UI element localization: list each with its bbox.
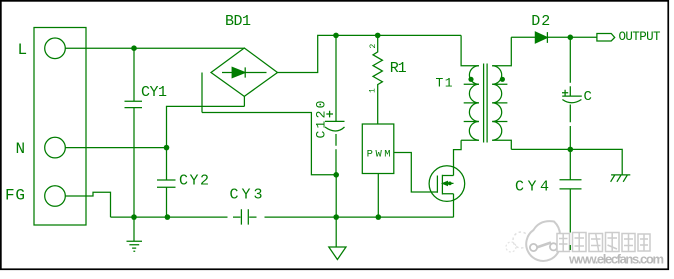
wire PWM to gate (394, 153, 438, 193)
connector J1 terminal block (34, 28, 86, 226)
wire D2 to output (570, 36, 597, 38)
wire FG to bottom rail (65, 192, 110, 217)
svg-text:T1: T1 (436, 76, 453, 91)
svg-text:BD1: BD1 (225, 13, 251, 30)
capacitor CY4 (560, 149, 582, 232)
transformer T1 primary winding (461, 35, 479, 140)
capacitor CY3 (241, 209, 248, 224)
output connector tag (597, 34, 615, 42)
wire N junction up to bridge AC2 (167, 73, 337, 175)
svg-text:OUTPUT: OUTPUT (619, 30, 661, 44)
svg-text:CY4: CY4 (515, 179, 549, 196)
svg-text:C: C (584, 89, 592, 105)
svg-text:www.elecfans.com: www.elecfans.com (568, 252, 664, 267)
wire bridge minus vertical (243, 96, 245, 106)
capacitor CY1 (125, 101, 143, 107)
resistor R1 (373, 35, 382, 124)
wire C1 minus to bottom rail and triangle ground (335, 175, 337, 247)
junction node rail PWM (376, 214, 382, 220)
transformer core (484, 64, 488, 143)
junction node rail C1 (333, 214, 339, 220)
svg-text:D2: D2 (531, 13, 550, 30)
wire CY4 stub peek (569, 245, 571, 250)
svg-text:CY3: CY3 (230, 187, 263, 204)
bridge rectifier BD1 diamond (211, 48, 278, 96)
junction node D2 cathode (568, 35, 574, 41)
wire MOSFET drain to transformer (454, 140, 462, 175)
junction node C1 minus (333, 172, 339, 178)
phase dot secondary (500, 77, 505, 82)
svg-text:PWM: PWM (367, 148, 391, 160)
wire L to bridge top (65, 47, 244, 49)
C1 plus sign (326, 111, 333, 118)
triangle ground (329, 247, 346, 260)
phase dot primary (468, 77, 473, 82)
junction node output rail C (568, 147, 574, 153)
ground symbol (CY1 bottom) (127, 241, 143, 251)
svg-text:L: L (18, 41, 28, 59)
output ground rail (511, 149, 622, 175)
PWM controller box (362, 124, 394, 174)
transformer T1 secondary winding (492, 66, 502, 141)
junction node rail ground (131, 214, 137, 220)
watermark text glyphs (557, 233, 650, 252)
wire bridge plus to top rail (278, 35, 462, 72)
terminal circle N (45, 137, 66, 158)
junction node top rail R1 (375, 33, 381, 39)
wire bottom rail left (111, 216, 241, 218)
diode D2 (511, 32, 570, 43)
svg-text:CY1: CY1 (141, 84, 167, 101)
svg-text:FG: FG (5, 186, 25, 204)
svg-text:1: 1 (369, 88, 378, 93)
wire CY2 leads (166, 148, 168, 218)
junction node L/CY1 (131, 45, 137, 51)
earth ground symbol (611, 175, 631, 182)
svg-text:2: 2 (369, 44, 378, 49)
wire N to junction (65, 147, 166, 149)
terminal circle FG (45, 186, 66, 207)
bridge inner diode (222, 67, 267, 77)
watermark logo (506, 221, 560, 261)
C plus sign (562, 90, 568, 96)
wire bottom rail right (249, 216, 453, 218)
wire CY1 branch vertical (133, 48, 135, 241)
terminal circle L (45, 38, 66, 59)
svg-text:N: N (16, 140, 26, 158)
capacitor C electrolytic (562, 37, 582, 149)
capacitor CY2 (157, 180, 176, 187)
junction node N/CY2 (164, 145, 170, 151)
wire MOSFET source to rail (453, 194, 455, 217)
svg-text:CY2: CY2 (179, 173, 209, 190)
junction node rail CY2 (165, 214, 171, 220)
svg-text:R1: R1 (390, 60, 407, 77)
transistor Q1 MOSFET (429, 166, 465, 202)
junction node top rail C1 (333, 33, 339, 39)
capacitor C1 electrolytic (325, 35, 345, 174)
wire PWM bottom to rail (377, 174, 379, 218)
